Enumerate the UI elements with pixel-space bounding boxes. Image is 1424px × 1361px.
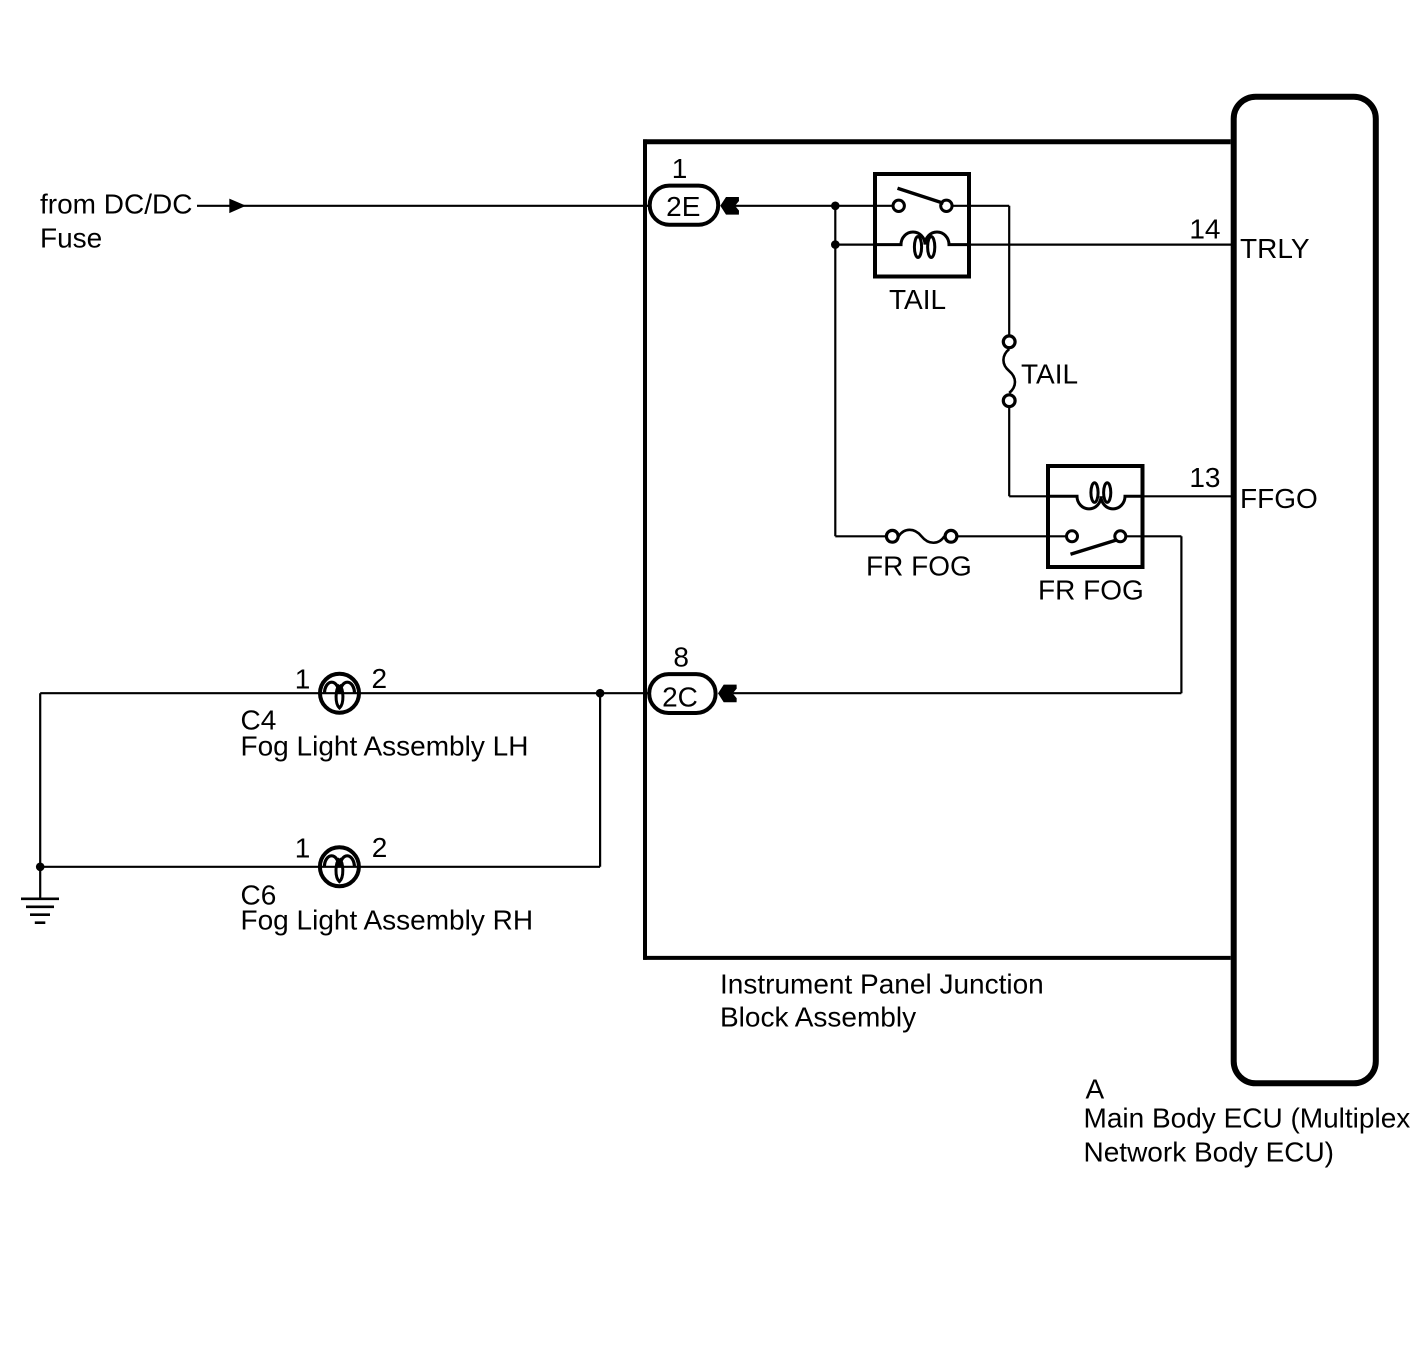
svg-text:1: 1: [295, 664, 311, 695]
junction node on 2C wire: [596, 689, 605, 698]
junction node on 2E wire: [831, 202, 840, 211]
wire ground stub: [39, 867, 41, 899]
wire left vertical C4 to ground node: [39, 693, 41, 867]
TAIL relay box: [875, 174, 969, 277]
FR FOG fuse wavy element: [899, 530, 945, 543]
wire TAIL relay switch to vertical: [946, 205, 1009, 207]
junction node on coil wire: [831, 240, 840, 249]
FR FOG relay switch contact right: [1115, 531, 1126, 542]
TAIL switch contact top: [1003, 336, 1015, 348]
wire FFGO row to FR FOG relay coil: [1009, 495, 1077, 497]
svg-text:from DC/DC: from DC/DC: [40, 189, 192, 220]
fog light bulb C6: [320, 847, 359, 886]
FR FOG relay switch blade: [1071, 540, 1117, 554]
svg-text:Fuse: Fuse: [40, 223, 102, 254]
wire TAIL relay coil row left: [835, 244, 901, 246]
arrow left at 2E: [720, 197, 739, 215]
arrow right on from DC/DC wire: [229, 199, 246, 214]
wire fog light row to 2C: [40, 692, 650, 694]
svg-text:A: A: [1086, 1074, 1105, 1105]
FR FOG relay box: [1048, 466, 1143, 567]
svg-text:13: 13: [1189, 462, 1220, 493]
svg-text:1: 1: [672, 153, 688, 184]
wire 2E to TAIL relay switch contact: [735, 205, 899, 207]
TAIL relay switch contact left: [893, 200, 904, 211]
svg-text:TRLY: TRLY: [1240, 233, 1310, 264]
wire vertical at node down from 2E wire to FR FOG fuse row: [834, 206, 836, 537]
svg-text:14: 14: [1189, 214, 1220, 245]
wire fuse row left: [835, 535, 892, 537]
svg-text:Instrument Panel Junction: Instrument Panel Junction: [720, 968, 1044, 999]
FR FOG relay switch contact left: [1067, 531, 1078, 542]
wire vertical from node to C6 row: [599, 693, 601, 867]
wire vertical TAIL switch upper: [1008, 206, 1010, 342]
wire FR FOG output to 2C: [733, 692, 1182, 694]
TAIL relay switch blade: [898, 188, 944, 203]
instrument panel junction block box: [643, 139, 1230, 959]
TAIL relay switch contact right: [941, 200, 952, 211]
FR FOG relay coil: [1048, 496, 1143, 509]
TAIL relay coil: [875, 232, 969, 245]
main body ECU box A: [1234, 97, 1376, 1084]
svg-text:FR FOG: FR FOG: [1038, 575, 1144, 606]
FR FOG fuse contact right: [945, 530, 957, 542]
svg-text:2: 2: [372, 832, 388, 863]
TAIL switch contact bottom: [1003, 395, 1015, 407]
connector oval 2E: [650, 186, 719, 225]
ground symbol: [21, 899, 59, 923]
wire FR FOG relay coil to FFGO pin 13: [1125, 495, 1234, 497]
svg-text:FFGO: FFGO: [1240, 483, 1318, 514]
arrow left at 2C: [718, 685, 737, 703]
svg-text:2: 2: [372, 663, 388, 694]
svg-text:Fog Light Assembly RH: Fog Light Assembly RH: [241, 904, 534, 935]
wire TAIL relay coil to TRLY pin 14: [949, 244, 1234, 246]
svg-text:8: 8: [673, 642, 689, 673]
svg-text:Fog Light Assembly LH: Fog Light Assembly LH: [241, 731, 529, 762]
FR FOG fuse contact left: [886, 530, 898, 542]
svg-text:2C: 2C: [662, 681, 698, 712]
wire FR FOG relay switch right: [1120, 535, 1181, 537]
wire C6 fog light row: [40, 866, 600, 868]
connector oval 2C: [649, 674, 715, 713]
svg-text:Block Assembly: Block Assembly: [720, 1002, 916, 1033]
wire fuse to FR FOG relay switch: [951, 535, 1072, 537]
svg-text:2E: 2E: [666, 191, 700, 222]
svg-text:Network Body ECU): Network Body ECU): [1084, 1136, 1335, 1167]
wire from DC/DC fuse to 2E: [197, 205, 650, 207]
fog light bulb C4: [320, 674, 359, 713]
TAIL switch wavy element: [1003, 349, 1015, 393]
svg-text:TAIL: TAIL: [1021, 359, 1078, 390]
wire vertical FR FOG output down: [1180, 536, 1182, 693]
svg-text:TAIL: TAIL: [889, 284, 946, 315]
svg-text:1: 1: [295, 832, 311, 863]
wire vertical TAIL switch lower to FFGO row: [1008, 401, 1010, 497]
svg-text:Main Body ECU (Multiplex: Main Body ECU (Multiplex: [1084, 1102, 1411, 1133]
svg-text:FR FOG: FR FOG: [866, 550, 972, 581]
junction node at ground: [36, 863, 45, 872]
